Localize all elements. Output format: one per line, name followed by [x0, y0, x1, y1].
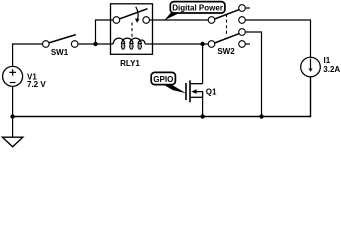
svg-text:SW1: SW1	[51, 48, 69, 57]
svg-text:RLY1: RLY1	[120, 59, 140, 68]
svg-text:GPIO: GPIO	[153, 75, 173, 84]
svg-text:Digital Power: Digital Power	[172, 3, 223, 12]
svg-text:7.2 V: 7.2 V	[27, 80, 46, 89]
svg-text:Q1: Q1	[206, 88, 217, 97]
svg-text:SW2: SW2	[217, 47, 235, 56]
svg-text:3.2A: 3.2A	[323, 65, 340, 74]
svg-text:I1: I1	[324, 56, 331, 65]
